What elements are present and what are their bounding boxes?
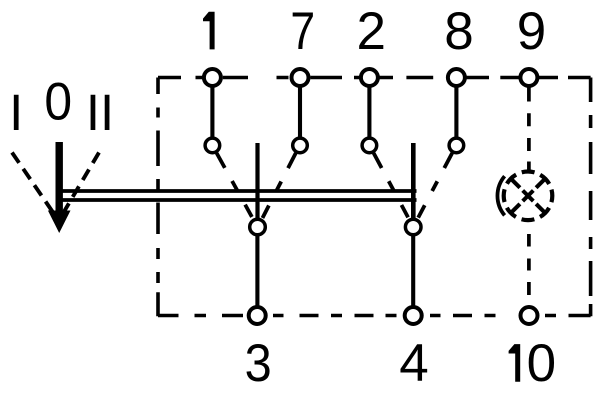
illumination lamp dashed circle <box>504 172 553 221</box>
terminal 1 <box>204 69 221 86</box>
wire terminal2 to contact2 <box>367 85 371 140</box>
housing border left edge (dash-dot) <box>156 78 160 317</box>
pin label 10 <box>509 344 521 382</box>
actuator bar lower line <box>59 198 417 202</box>
svg-text:I: I <box>9 84 23 141</box>
contact 1 <box>205 138 220 153</box>
dashed position line I <box>12 153 53 212</box>
dashed wire lamp to terminal10 <box>527 234 531 295</box>
svg-text:0: 0 <box>527 334 556 393</box>
terminal 3 <box>249 307 266 324</box>
dashed link contact7 to pivotA <box>262 153 296 219</box>
position arrow (0) <box>48 142 71 233</box>
illumination lamp holder arc <box>497 176 504 215</box>
svg-text:II: II <box>86 84 114 141</box>
dashed position line II <box>64 153 100 213</box>
illumination lamp X arm SE <box>536 204 544 212</box>
wire terminal8 to contact8 <box>454 85 458 140</box>
contact 2 <box>362 138 377 153</box>
wire terminal7 to contact7 <box>298 85 302 140</box>
dashed wire terminal9 to lamp <box>527 87 531 173</box>
terminal 2 <box>361 69 378 86</box>
svg-text:0: 0 <box>44 71 72 131</box>
illumination lamp X arm SW <box>512 204 520 212</box>
pole lever B <box>411 143 416 219</box>
terminal 9 <box>520 69 537 86</box>
housing border top edge (dash-dot) <box>158 76 591 80</box>
dashed link contact2 to pivotB <box>374 153 409 219</box>
illumination lamp X center <box>523 191 534 202</box>
contact 8 <box>449 138 464 153</box>
wire pivotA to terminal3 <box>255 234 259 308</box>
svg-text:3: 3 <box>245 333 272 392</box>
actuator bar upper line <box>59 189 417 193</box>
pole lever A <box>255 143 259 219</box>
pivot A <box>250 219 266 235</box>
terminal 4 <box>405 307 422 324</box>
terminal 8 <box>448 69 465 86</box>
wire pivotB to terminal4 <box>411 234 415 308</box>
svg-text:2: 2 <box>356 2 385 61</box>
terminal 7 <box>292 69 309 86</box>
terminal 10 <box>521 307 538 324</box>
housing border right edge (dash-dot) <box>589 78 593 317</box>
illumination lamp X arm NW <box>512 179 520 187</box>
pivot B <box>405 219 421 235</box>
illumination lamp X arm NE <box>536 179 544 187</box>
contact 7 <box>293 138 308 153</box>
pin label 1 <box>203 12 215 50</box>
housing border bottom edge (dash-dot) <box>158 314 591 318</box>
wire terminal1 to contact1 <box>210 85 214 140</box>
svg-text:4: 4 <box>399 334 428 393</box>
dashed link contact1 to pivotA <box>217 153 253 219</box>
svg-text:9: 9 <box>517 2 546 61</box>
dashed link contact8 to pivotB <box>418 153 453 219</box>
svg-text:7: 7 <box>290 3 315 61</box>
svg-text:8: 8 <box>444 2 473 61</box>
